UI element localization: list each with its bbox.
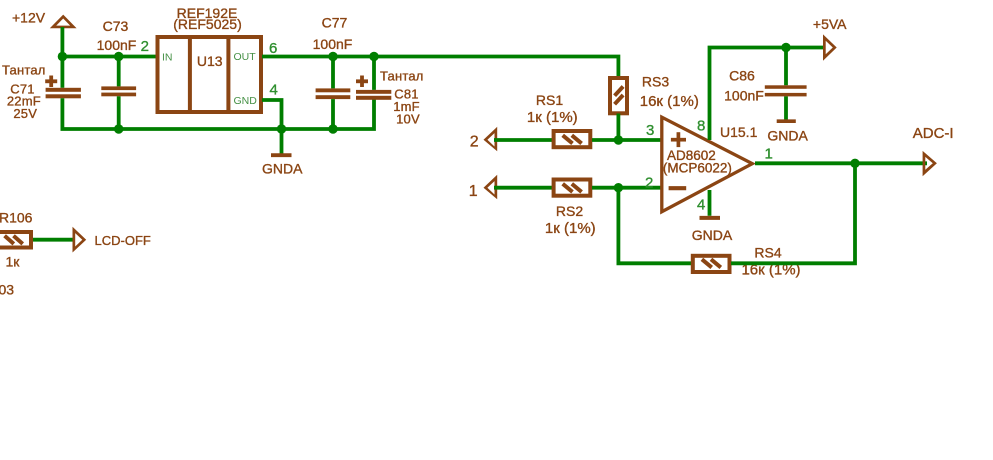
capacitor C86 [724, 48, 806, 120]
capacitor C73 [97, 18, 137, 129]
svg-text:IN: IN [162, 52, 173, 64]
svg-text:100nF: 100nF [97, 37, 137, 53]
node junction output/feedback [850, 159, 859, 168]
svg-text:Тантал: Тантал [380, 68, 424, 83]
svg-text:1к: 1к [6, 254, 21, 270]
node junction RS1/RS3 [614, 135, 623, 144]
svg-text:03: 03 [0, 281, 14, 297]
svg-text:4: 4 [697, 196, 705, 213]
input arrow 1 [469, 175, 498, 200]
svg-text:RS4: RS4 [754, 245, 781, 261]
node junction C86 top [781, 43, 790, 52]
svg-text:100nF: 100nF [724, 87, 764, 103]
svg-text:U13: U13 [197, 53, 223, 69]
wire feedback down and to RS4 [618, 188, 692, 264]
output arrow ADC-I [913, 125, 954, 176]
svg-text:+12V: +12V [12, 9, 46, 25]
node junction C77 top [328, 52, 337, 61]
svg-text:1к (1%): 1к (1%) [545, 220, 596, 237]
svg-text:25V: 25V [13, 106, 37, 121]
svg-text:2: 2 [470, 133, 479, 150]
supply symbol +5VA [813, 16, 847, 61]
supply symbol +12V [12, 9, 77, 28]
resistor RS3 [610, 74, 699, 114]
wire RS4 to output node [731, 163, 855, 263]
svg-text:1: 1 [765, 145, 773, 162]
svg-text:16к (1%): 16к (1%) [640, 93, 699, 110]
svg-text:2: 2 [645, 174, 653, 191]
op-amp U15.1 AD8602 [662, 117, 758, 212]
wire row2 left [494, 186, 552, 190]
wire pin8 to +5VA rail [710, 48, 825, 141]
svg-text:1: 1 [469, 183, 478, 200]
svg-text:C77: C77 [322, 14, 348, 30]
node junction C73 top [114, 52, 123, 61]
svg-text:C73: C73 [103, 18, 129, 34]
node junction C73 bottom [114, 124, 123, 133]
ground GNDA under opamp [692, 218, 733, 243]
voltage reference IC U13 REF192E [158, 5, 262, 112]
capacitor C71 [2, 57, 81, 121]
wire row1 left [494, 138, 552, 142]
node junction C77 bottom [328, 124, 337, 133]
svg-text:4: 4 [270, 82, 278, 99]
resistor R106 [0, 210, 33, 270]
svg-text:OUT: OUT [234, 51, 257, 63]
wire opamp pin4 stem [708, 190, 712, 216]
node junction RS2/feedback [614, 183, 623, 192]
svg-text:GND: GND [234, 95, 258, 107]
wire output [755, 161, 927, 165]
svg-text:+5VA: +5VA [813, 16, 847, 32]
svg-text:10V: 10V [396, 112, 420, 127]
svg-text:GNDA: GNDA [692, 227, 733, 243]
svg-text:LCD-OFF: LCD-OFF [95, 233, 151, 248]
ground GNDA under U13 [262, 129, 303, 176]
svg-text:GNDA: GNDA [262, 160, 303, 176]
wire top rail right from pin 6 to RS3 [262, 57, 618, 77]
capacitor C77 [313, 14, 353, 129]
capacitor C81 [356, 57, 424, 127]
svg-text:3: 3 [646, 122, 654, 139]
svg-text:RS2: RS2 [556, 203, 583, 219]
svg-text:ADC-I: ADC-I [913, 125, 954, 142]
output arrow LCD-OFF [73, 227, 151, 253]
wire +12V stem [61, 27, 65, 57]
svg-text:Тантал: Тантал [2, 62, 46, 77]
node junction pin4/GNDA [277, 124, 286, 133]
wire row2 right [592, 186, 661, 190]
svg-text:R106: R106 [0, 210, 33, 226]
wire top rail left [62, 55, 156, 59]
svg-text:2: 2 [141, 38, 149, 55]
resistor RS1 [527, 92, 590, 147]
ground GNDA under C86 [767, 121, 808, 143]
svg-text:U15.1: U15.1 [720, 124, 758, 140]
svg-text:100nF: 100nF [313, 36, 353, 52]
svg-text:GNDA: GNDA [767, 127, 808, 143]
svg-text:RS3: RS3 [642, 74, 669, 90]
wire R106 to LCD-OFF arrow [33, 238, 75, 242]
svg-text:RS1: RS1 [536, 92, 563, 108]
wire row1 right [592, 138, 661, 142]
wire bottom rail with C71 and C81 stems [62, 98, 374, 129]
input arrow 2 [470, 127, 498, 152]
node junction C81 top [369, 52, 378, 61]
node junction +12V/C71 [58, 52, 67, 61]
wire RS3 bottom stem [617, 114, 621, 141]
svg-text:(REF5025): (REF5025) [173, 16, 241, 32]
svg-text:C86: C86 [729, 68, 755, 84]
svg-text:8: 8 [697, 118, 705, 135]
resistor RS4 [693, 245, 801, 279]
resistor RS2 [545, 180, 596, 238]
svg-text:1к (1%): 1к (1%) [527, 109, 578, 126]
wire pin 4 to bottom rail [262, 100, 282, 129]
svg-text:(MCP6022): (MCP6022) [663, 160, 732, 175]
